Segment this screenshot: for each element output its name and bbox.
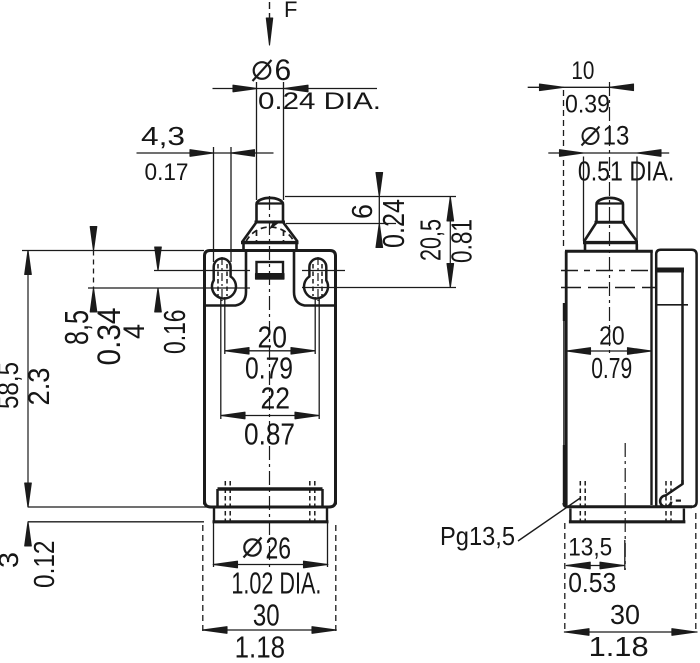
svg-text:0.12: 0.12 [29,541,61,589]
svg-text:30: 30 [253,598,280,633]
svg-text:8,5: 8,5 [58,310,95,345]
front view body sides [205,306,336,505]
dim Phi6 right arrow [284,85,308,92]
dim 8,5 lower arrow [90,288,97,312]
svg-text:0.51 DIA.: 0.51 DIA. [578,156,674,187]
svg-text:26: 26 [266,531,292,566]
side view cable hole rear hidden lines [666,481,671,521]
extension line slot width right [230,147,232,262]
leader line Pg13,5 [518,498,581,542]
extension line body bottom to left [28,506,207,508]
extension line Phi26 left [213,523,215,567]
extension line 30 front right dashed [335,525,337,631]
dim 20 front right arrow [291,348,315,355]
dim 8,5 upper arrow [90,227,97,251]
side view plunger dome [596,198,625,204]
right slot hidden hole dashes [313,264,322,296]
dim 4,3 right arrow [231,150,255,157]
svg-text:1.02 DIA.: 1.02 DIA. [231,566,321,601]
slot upper center line left [154,270,250,272]
dim 6 lower arrow [376,224,383,248]
dim 58,5 line [27,251,29,508]
svg-text:1.18: 1.18 [235,630,285,663]
side view body left edge [565,251,568,505]
svg-text:0.24 DIA.: 0.24 DIA. [258,88,381,115]
dim Phi26 left arrow [213,561,237,568]
dim 4,3 left arrow [190,150,214,157]
svg-text:13,5: 13,5 [568,534,612,562]
front view plunger pin [257,204,284,223]
extension line slot width left [213,147,215,262]
extension line hole center [624,540,626,570]
force arrow F head [266,18,272,45]
bracket step line [656,304,688,306]
extension line cone top to right [286,223,396,225]
dim 13,5 left arrow [566,562,590,569]
side view body top edge [565,250,653,253]
svg-text:F: F [284,0,297,22]
svg-text:6: 6 [275,54,292,87]
side view rear bracket outline [656,250,696,507]
side view upper hidden line [561,270,653,272]
svg-text:Pg13,5: Pg13,5 [440,521,515,551]
dim 30 side right arrow [672,629,696,636]
extension line cone left [583,157,585,242]
extension line cone right [636,157,638,242]
dim 30 front left arrow [203,627,228,634]
dim 58,5 top arrow [25,251,32,275]
extension line 30 front left dashed [202,525,204,631]
extension line plate top to left [22,250,204,252]
dim 6 upper arrow [376,173,383,197]
extension line 22 right [318,297,320,419]
svg-text:0.16: 0.16 [157,310,192,355]
slot lower center line left [88,287,250,289]
dim 30 front line [203,629,337,631]
svg-text:30: 30 [610,599,640,630]
dim 20 front line [225,350,315,352]
side view cable hole centerline [624,443,626,570]
dim Phi26 line [213,564,328,566]
dim 3 lower arrow [25,522,32,546]
dim 30 side left arrow [565,629,589,636]
bracket inner vertical [681,270,684,484]
slot upper center line right [302,270,345,272]
side view plunger cone [583,222,638,242]
front view body bottom edge [205,501,336,507]
bracket thick bar [656,268,684,273]
dim 30 front right arrow [312,627,336,634]
side view plunger pin [597,204,624,223]
front view head plate bottom left segment with flare [205,252,247,306]
svg-text:20: 20 [258,320,288,355]
dim Phi13 right arrow [637,150,661,157]
bracket bottom hook [660,480,682,507]
svg-text:0.17: 0.17 [145,159,189,186]
front view plunger inner arrow mark [270,221,278,228]
extension line 20 right [314,297,316,354]
front view cable boss collar [218,489,323,506]
front view plunger bellows cone [241,222,299,243]
front view plunger hidden dome dashed [246,227,294,242]
side view body right edge [650,251,652,505]
svg-text:4: 4 [118,324,151,339]
dim Phi26 right arrow [304,561,328,568]
side view bottom flange [569,509,686,522]
svg-text:2.3: 2.3 [23,368,56,406]
dim 30 side line [564,631,698,633]
dim Phi13 line [548,152,669,154]
extension line 30 side left dashed [564,523,566,633]
svg-text:6: 6 [347,204,379,219]
svg-text:3: 3 [0,552,24,568]
dim 10 right arrow [610,84,634,91]
extension line slot center to right [302,287,456,289]
front view head plate bottom right segment with flare [294,252,336,306]
force arrow F centerline stub [269,2,271,20]
dim 13,5 right arrow [600,562,624,569]
svg-text:4,3: 4,3 [141,121,185,151]
front view head plate outline [205,251,336,307]
front view plunger dome [256,198,285,204]
svg-text:22: 22 [261,381,291,416]
side view cover edge line [563,303,565,506]
dim 13,5 line [566,565,624,567]
svg-text:0.79: 0.79 [591,353,632,385]
dim 10 line [528,86,633,88]
front view cable hole right hidden lines [310,481,315,521]
dim 20 side right arrow [628,348,652,355]
extension line 22 left [220,297,222,419]
dim 4 upper arrow [155,247,162,271]
dim 20 side left arrow [567,348,591,355]
extension line plunger right [283,82,285,200]
front view label window [256,262,285,279]
extension line 30 side right dashed [695,513,697,633]
extension line dome top to right [285,196,456,198]
svg-text:0.81: 0.81 [447,219,479,263]
dim 20,5 line [449,197,451,288]
right slot vertical centerline [317,257,319,301]
dim Phi13 symbol [582,127,600,146]
dim 22 right arrow [295,412,319,419]
side view cable hole front hidden lines [580,481,585,521]
dim 58,5 bottom arrow [25,483,32,507]
svg-text:58,5: 58,5 [0,362,25,409]
side view lower hidden line [561,287,655,289]
extension line plunger left [256,82,258,200]
svg-text:0.24: 0.24 [376,199,411,248]
front view bottom flange [213,509,329,522]
svg-text:20,5: 20,5 [416,219,448,261]
left slot vertical centerline [221,257,223,301]
dim Phi6 left arrow [233,85,257,92]
dim 22 left arrow [221,412,245,419]
extension line side body left top dashed [563,90,565,250]
extension line 20 left [224,297,226,354]
dim Phi26 symbol [244,538,262,558]
extension line Phi26 right [327,523,329,567]
svg-text:20: 20 [599,321,625,351]
front view vertical centerline [269,196,271,570]
dim 20,5 bottom arrow [447,264,454,288]
dim Phi6 symbol [253,60,272,81]
dim 4 lower arrow [155,288,162,312]
dim 4,3 line [137,152,274,154]
extension line flange bottom to left [28,521,204,523]
dim 20,5 top arrow [447,197,454,221]
svg-text:0.39: 0.39 [565,91,610,119]
dim 22 line [221,415,319,417]
side view cover edge thick segment upper [563,303,566,321]
dim 8,5 connector dashes [93,251,95,289]
side view plunger collar [585,244,637,250]
front view cable hole left hidden lines [225,481,230,521]
front view plunger collar [244,244,297,250]
left slot hidden hole dashes [218,264,227,296]
svg-text:10: 10 [571,57,594,85]
front view right mounting slot keyhole [304,259,328,299]
svg-text:0.87: 0.87 [244,417,295,452]
svg-text:1.18: 1.18 [589,631,649,662]
side plunger centerline [609,82,611,356]
side view body bottom edge [564,503,692,507]
side view cover edge thick segment lower [563,445,566,505]
dim Phi6 line [213,88,378,90]
svg-text:13: 13 [603,121,630,151]
dim 6 line [378,197,380,224]
front view left mounting slot keyhole [212,259,236,299]
dim 10 left arrow [540,84,564,91]
dim Phi13 left arrow [560,150,584,157]
svg-text:0.53: 0.53 [568,567,616,598]
dim 20 side line [567,350,652,352]
dim 20 front left arrow [225,348,249,355]
